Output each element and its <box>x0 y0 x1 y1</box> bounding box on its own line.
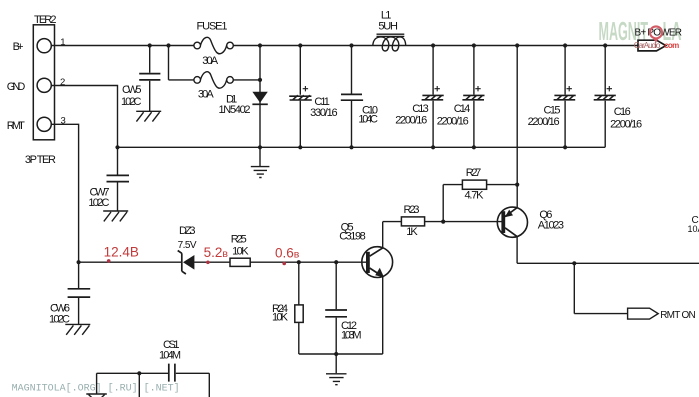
svg-text:330/16: 330/16 <box>310 107 338 119</box>
svg-text:1: 1 <box>60 37 65 48</box>
svg-text:12.4В: 12.4В <box>104 245 139 260</box>
svg-text:C3198: C3198 <box>339 231 366 243</box>
svg-text:102C: 102C <box>88 197 109 209</box>
svg-text:103M: 103M <box>341 329 362 341</box>
svg-text:RMT ON: RMT ON <box>660 310 696 321</box>
svg-text:FUSE1: FUSE1 <box>197 20 228 32</box>
svg-text:2: 2 <box>60 77 65 88</box>
svg-text:A1023: A1023 <box>538 219 564 231</box>
svg-text:7.5V: 7.5V <box>178 240 197 251</box>
svg-text:R25: R25 <box>231 234 247 246</box>
svg-text:104M: 104M <box>159 350 181 362</box>
svg-text:C13: C13 <box>412 103 429 115</box>
svg-text:DZ3: DZ3 <box>179 225 196 237</box>
svg-text:2200/16: 2200/16 <box>610 119 642 131</box>
svg-text:10K: 10K <box>232 246 249 258</box>
svg-text:0.6в: 0.6в <box>275 245 300 260</box>
svg-text:C14: C14 <box>454 103 471 115</box>
svg-text:2200/16: 2200/16 <box>437 115 469 127</box>
svg-text:B+: B+ <box>13 41 24 53</box>
svg-text:102C: 102C <box>49 313 70 325</box>
svg-text:4.7K: 4.7K <box>465 189 485 201</box>
svg-text:C15: C15 <box>544 104 561 116</box>
svg-text:CW5: CW5 <box>122 84 142 96</box>
svg-text:3: 3 <box>61 115 66 126</box>
svg-text:com: com <box>664 41 679 50</box>
svg-text:2200/16: 2200/16 <box>395 114 427 126</box>
svg-text:104C: 104C <box>358 114 378 126</box>
svg-text:5.2в: 5.2в <box>204 245 229 260</box>
svg-text:TER2: TER2 <box>34 14 57 26</box>
svg-text:3P TER: 3P TER <box>25 154 56 166</box>
svg-text:C16: C16 <box>614 106 631 118</box>
svg-text:R23: R23 <box>404 204 420 216</box>
svg-text:30A: 30A <box>198 89 214 101</box>
svg-text:1N5402: 1N5402 <box>219 104 251 116</box>
svg-text:30A: 30A <box>202 55 218 67</box>
svg-text:5UH: 5UH <box>378 20 398 32</box>
svg-text:R27: R27 <box>466 167 482 179</box>
svg-text:10A: 10A <box>688 224 699 234</box>
svg-text:2200/16: 2200/16 <box>528 116 560 128</box>
svg-text:102C: 102C <box>121 96 142 108</box>
svg-text:CarAudio: CarAudio <box>634 41 661 50</box>
svg-text:MAGNITOLA[.ORG] [.RU] [.NET]: MAGNITOLA[.ORG] [.RU] [.NET] <box>12 383 180 395</box>
svg-text:1K: 1K <box>406 226 418 238</box>
svg-text:10K: 10K <box>272 312 289 324</box>
svg-text:RMT: RMT <box>7 120 25 132</box>
svg-text:GND: GND <box>7 81 26 93</box>
